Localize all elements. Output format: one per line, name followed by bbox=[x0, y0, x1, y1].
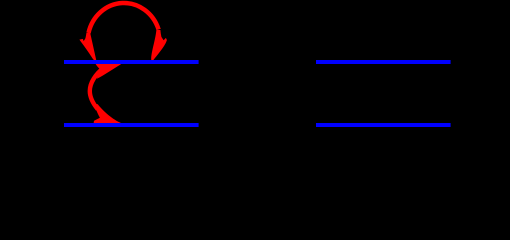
loop right arrowhead bbox=[151, 30, 167, 62]
lower-right energy level line bbox=[316, 123, 451, 127]
decay arrow shaft (crescent from upper to lower level) bbox=[90, 68, 104, 110]
decay arrow bottom head (resting on lower line) bbox=[94, 104, 122, 124]
red loop arc over upper-left level (spontaneous re-absorption loop) bbox=[89, 3, 159, 33]
loop left arrowhead bbox=[79, 33, 96, 63]
upper-right energy level line bbox=[316, 60, 451, 64]
decay arrow top head (tucked under upper line) bbox=[95, 63, 121, 79]
lower-left energy level line bbox=[64, 123, 199, 127]
upper-left energy level line bbox=[64, 60, 199, 64]
